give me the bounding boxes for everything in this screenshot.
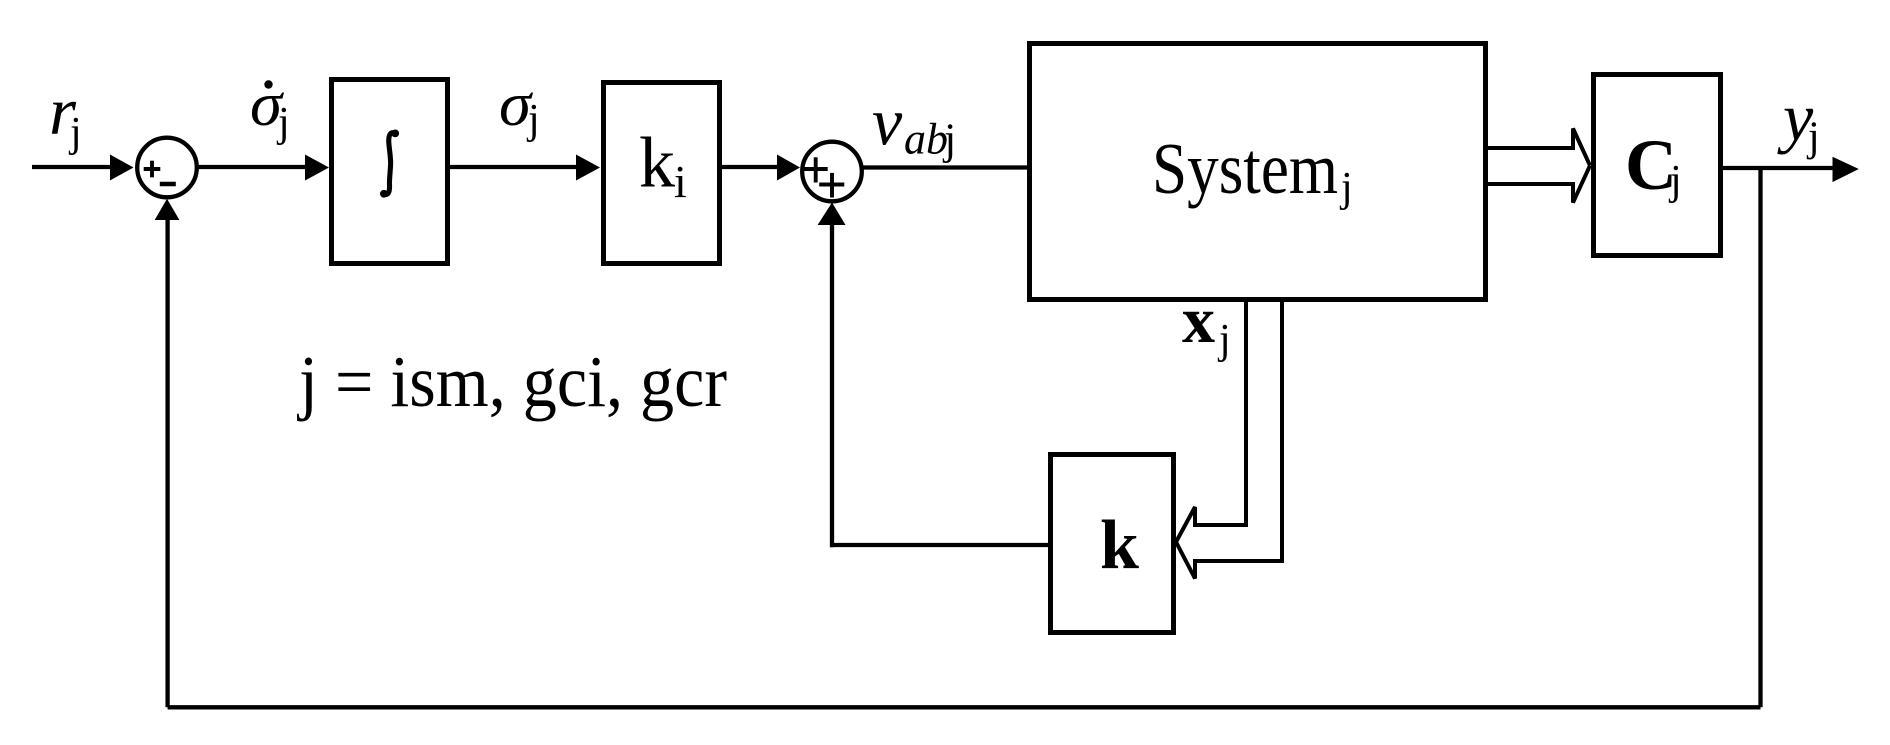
plus sign lower in S2 bbox=[819, 173, 844, 198]
svg-text:v: v bbox=[872, 83, 903, 159]
svg-text:x: x bbox=[1182, 284, 1215, 357]
svg-text:j: j bbox=[1217, 317, 1231, 363]
wire Cj to output bbox=[1723, 166, 1834, 170]
svg-text:System: System bbox=[1152, 128, 1338, 209]
node r_j label bbox=[49, 73, 82, 156]
gain block ki bbox=[604, 83, 720, 264]
output arrowhead y_j bbox=[1833, 157, 1859, 182]
svg-text:k: k bbox=[1100, 507, 1139, 584]
svg-text:j = ism, gci, gcr: j = ism, gci, gcr bbox=[296, 341, 727, 422]
integrator block U1 bbox=[332, 80, 448, 264]
hollow arrow x_j down-left : upper line bbox=[1176, 302, 1246, 542]
arrowhead into S1 bottom bbox=[155, 199, 180, 220]
wire S2 to System bbox=[862, 165, 1030, 169]
svg-text:j: j bbox=[942, 115, 956, 164]
node y_j label bbox=[1777, 79, 1820, 161]
feedback wire left vertical bbox=[165, 219, 169, 707]
wire up to S2 bbox=[830, 224, 834, 547]
arrowhead into S2 bbox=[777, 155, 800, 181]
system block bbox=[1030, 44, 1486, 300]
svg-text:ab: ab bbox=[904, 115, 948, 164]
plus sign in S1 bbox=[144, 161, 161, 178]
label System_j bbox=[1152, 128, 1353, 211]
arrowhead into summer S1 bbox=[110, 155, 134, 181]
arrowhead into ki bbox=[576, 155, 600, 181]
label k_i bbox=[639, 122, 687, 207]
hollow arrow x_j down-left : lower line bbox=[1176, 302, 1282, 579]
integral symbol bbox=[380, 130, 399, 198]
minus sign in S1 bbox=[160, 182, 176, 186]
svg-text:j: j bbox=[1668, 158, 1682, 204]
node v_abj label bbox=[872, 83, 956, 163]
controller block Cj bbox=[1594, 75, 1721, 256]
gain block k bbox=[1051, 455, 1174, 633]
feedback wire bottom horizontal bbox=[168, 705, 1761, 709]
plus sign upper in S2 bbox=[804, 157, 828, 182]
svg-text:k: k bbox=[639, 122, 675, 202]
wire ki to summer S2 bbox=[722, 165, 779, 169]
svg-text:j: j bbox=[1339, 165, 1353, 211]
arrowhead into integrator bbox=[305, 155, 329, 181]
svg-text:i: i bbox=[674, 156, 687, 207]
hollow arrow System to Cj : lower line bbox=[1488, 166, 1590, 203]
arrowhead into S2 bottom bbox=[818, 203, 846, 226]
wire input r_j bbox=[32, 165, 112, 169]
label C_j bbox=[1625, 125, 1682, 205]
node sigma_j label bbox=[499, 71, 540, 143]
feedback wire right vertical bbox=[1758, 169, 1762, 708]
wire k to left bbox=[830, 543, 1048, 547]
wire S1 to integrator bbox=[196, 165, 307, 169]
wire integrator to ki bbox=[450, 165, 578, 169]
summing junction S1 bbox=[137, 138, 197, 198]
node sigma-dot label bbox=[250, 71, 290, 146]
svg-text:j: j bbox=[1806, 115, 1820, 161]
summing junction S2 bbox=[802, 142, 862, 202]
svg-text:j: j bbox=[68, 110, 82, 156]
hollow arrow System to Cj : upper line bbox=[1488, 129, 1590, 166]
svg-text:j: j bbox=[276, 100, 290, 146]
node x_j label bbox=[1182, 284, 1231, 363]
svg-text:j: j bbox=[526, 97, 540, 143]
